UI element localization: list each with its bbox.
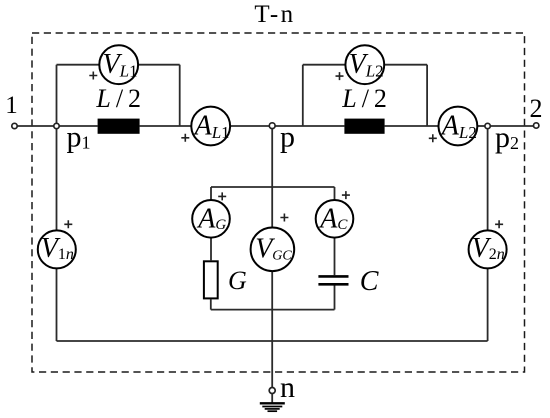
plus sign AL1 <box>181 134 189 142</box>
wire V2n branch lower <box>487 268 489 341</box>
wire node n to ground <box>271 394 273 404</box>
wire AL1 to node p <box>230 125 273 127</box>
wire AC branch top <box>334 187 336 202</box>
wire center: node p down to VGC <box>271 126 273 228</box>
wire AL2 to node p2 <box>477 125 488 127</box>
wire VL2 loop top right <box>384 64 428 66</box>
svg-text:G: G <box>228 266 247 295</box>
wire node p to inductor 2 <box>272 125 344 127</box>
wire G resistor to bottom <box>210 299 212 309</box>
wire capacitor to bottom <box>334 285 336 309</box>
wire VL1 loop top left <box>57 64 101 66</box>
wire VL1 loop right vertical <box>179 65 181 126</box>
wire bottom rail <box>57 340 488 342</box>
voltmeter V2n <box>469 230 507 268</box>
ground symbol <box>260 402 285 404</box>
wire VL2 loop left vertical <box>302 65 304 126</box>
wire inductor to ammeter AL1 <box>140 125 192 127</box>
terminal 2 <box>534 123 539 128</box>
plus sign VL1 <box>89 72 97 80</box>
wire p1 to inductor L/2 left <box>57 125 98 127</box>
wire inductor 2 to ammeter AL2 <box>385 125 440 127</box>
wire AG to G resistor <box>210 237 212 261</box>
voltmeter VL2 <box>345 45 384 84</box>
plus sign VGC <box>280 214 288 222</box>
svg-text:2: 2 <box>530 94 543 123</box>
wire AC to capacitor <box>334 238 336 275</box>
wire VL1 loop left vertical <box>56 65 58 126</box>
plus sign AC <box>342 191 350 199</box>
inductor L/2 left (black bar) <box>98 119 140 134</box>
wire VL2 loop right vertical <box>426 65 428 126</box>
plus sign AG <box>218 192 226 200</box>
voltmeter V1n <box>38 230 76 268</box>
svg-text:1: 1 <box>5 92 18 119</box>
wire AG branch top <box>210 187 212 201</box>
plus sign V2n <box>495 220 503 228</box>
svg-text:L/2: L/2 <box>341 84 392 113</box>
wire middle box top <box>211 186 335 188</box>
wire VL2 loop top left <box>303 64 346 66</box>
svg-text:p: p <box>280 121 295 154</box>
ammeter AL2 <box>439 107 478 146</box>
node p2 <box>485 123 490 128</box>
svg-text:C: C <box>360 266 379 297</box>
node n <box>269 388 275 394</box>
voltmeter VGC <box>251 228 295 272</box>
plus sign V1n <box>64 220 72 228</box>
wire V1n branch lower <box>56 268 58 341</box>
wire V2n branch upper <box>487 126 489 231</box>
svg-text:T-n: T-n <box>254 1 295 28</box>
terminal 1 <box>12 123 17 128</box>
resistor G (open rectangle) <box>204 261 218 298</box>
ammeter AG <box>192 200 230 238</box>
svg-text:n: n <box>280 371 295 404</box>
wire p2 to terminal 2 <box>488 125 537 127</box>
wire center: VGC down to node n <box>271 271 273 388</box>
wire VL1 loop top right <box>138 64 180 66</box>
svg-text:L/2: L/2 <box>95 84 146 113</box>
wire V1n branch upper <box>56 126 58 231</box>
node p <box>269 123 275 129</box>
plus sign VL2 <box>336 72 344 80</box>
voltmeter VL1 <box>99 45 138 84</box>
plus sign AL2 <box>429 134 437 142</box>
wire middle box bottom <box>211 309 335 311</box>
dashed boundary box T-n <box>32 33 525 372</box>
wire main rail left: terminal 1 to p1 <box>15 125 57 127</box>
inductor L/2 right (black bar) <box>344 119 384 134</box>
node p1 <box>54 123 59 128</box>
capacitor C plates <box>318 275 348 278</box>
ammeter AL1 <box>191 107 230 146</box>
ammeter AC <box>316 200 354 238</box>
